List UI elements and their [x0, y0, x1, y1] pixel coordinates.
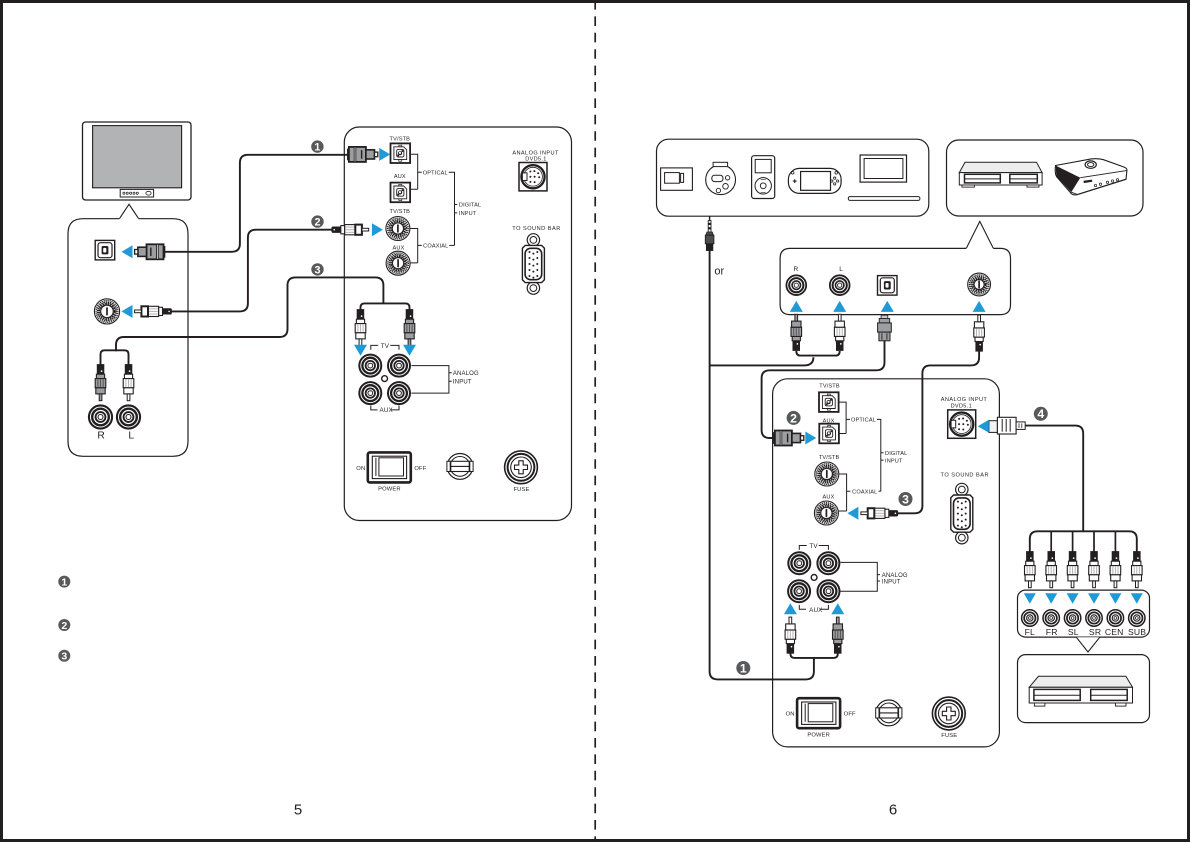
blue arrow into AUX optical p6 [805, 432, 816, 445]
svg-text:FUSE: FUSE [513, 487, 529, 493]
speaker jack SL [1064, 610, 1080, 626]
svg-text:AUX: AUX [379, 407, 393, 414]
jack L on TV panel [117, 405, 140, 428]
svg-text:TV: TV [381, 343, 390, 350]
blue arrow up AUX-L p6 [784, 603, 797, 614]
fuse holder [505, 451, 538, 493]
TV jack panel (page 5) [68, 219, 188, 457]
svg-text:COAXIAL: COAXIAL [423, 244, 448, 250]
wire split bar at TV panel R/L [101, 350, 129, 365]
svg-text:OFF: OFF [844, 712, 856, 718]
device: game console [1055, 159, 1127, 195]
optical plug under panel (gray, up) [879, 319, 890, 323]
aux input panel (page 6) [780, 248, 1010, 314]
optical jack TV/STB p6 [819, 392, 839, 412]
VGA connector p6 [951, 483, 973, 544]
voltage selector p6 [876, 700, 902, 726]
RCA plug over L (white) [123, 365, 134, 401]
sound bar rear panel (page 6) [773, 379, 1000, 747]
optical jack on panel [878, 276, 898, 296]
svg-text:L: L [128, 431, 134, 442]
svg-text:2: 2 [314, 217, 320, 229]
sound bar rear panel (page 5) [344, 127, 571, 521]
coax plug into TV/STB coax (points right) [332, 225, 369, 235]
numbered circle 3 (page5) [311, 263, 323, 276]
RCA plug speaker 6 [1132, 552, 1143, 588]
speaker input panel [1018, 590, 1150, 637]
wire cable1 optical (page5) [165, 155, 348, 252]
blue arrow down speaker 1029.8 [1024, 593, 1036, 604]
RCA plug up R (gray) [791, 314, 802, 350]
callout pointer speaker panel to dvd [1076, 637, 1100, 652]
coax plug at TV panel (points left) [135, 306, 172, 316]
optical out jack on TV panel [95, 240, 115, 260]
speaker jack SR [1086, 610, 1102, 626]
device: psp [788, 168, 841, 193]
blue arrow into TV/STB coax [372, 223, 383, 236]
TV bracket p6 [799, 546, 828, 550]
svg-text:ANALOG INPUT: ANALOG INPUT [941, 397, 988, 403]
wire R/L pair bar (page6) [796, 351, 839, 356]
svg-text:or: or [714, 265, 724, 277]
center screw p6 [811, 575, 817, 581]
jack AUX L p6 [788, 580, 810, 602]
POWER switch [356, 452, 426, 492]
svg-text:TO SOUND BAR: TO SOUND BAR [941, 473, 989, 479]
numbered circle 3 (page6) [899, 492, 913, 506]
wire cable3 analog pair (page5) [116, 277, 383, 351]
VGA connector TO SOUND BAR [522, 234, 544, 295]
DIN connector p6 [948, 410, 976, 438]
wire speaker stub at 1051.2 [1050, 531, 1052, 551]
wire cable1: 3.5mm stem + branch to R/L bar [710, 251, 814, 680]
dvd player box (bottom right) [1018, 655, 1150, 723]
RCA plug up L (white) [834, 314, 845, 350]
svg-text:1: 1 [740, 661, 747, 675]
center fold dashed line [594, 0, 596, 842]
dvd/game box (page 6) [947, 140, 1144, 216]
callout pointer from dvd box to input panel [966, 221, 993, 248]
svg-text:INPUT: INPUT [453, 379, 472, 385]
voltage selector [447, 454, 473, 480]
blue arrow into TV coaxial [122, 305, 133, 318]
RCA plug up AUX L (white) p6 [785, 617, 796, 653]
svg-text:ANALOG: ANALOG [453, 371, 479, 377]
svg-text:FL: FL [1025, 627, 1035, 637]
optical plug into TV/STB optical (points right) [347, 147, 377, 162]
blue arrow up R [790, 301, 803, 312]
RCA plug into TV R (gray) [404, 310, 415, 346]
svg-text:INPUT: INPUT [459, 211, 477, 217]
blue arrow up coax [973, 301, 986, 312]
coax jack on panel [968, 273, 991, 296]
AUX bracket p6 [799, 605, 828, 609]
coax jack AUX p6 [814, 501, 838, 525]
svg-text:SUB: SUB [1128, 627, 1146, 637]
legend circle 2 [58, 619, 70, 632]
speaker jack FR [1043, 610, 1059, 626]
svg-text:TV/STB: TV/STB [819, 455, 840, 461]
svg-text:3: 3 [902, 492, 909, 506]
blue arrow into AUX coax p6 [847, 507, 858, 520]
blue arrow down speaker 1051.2 [1045, 593, 1057, 604]
blue arrow down speaker 1115.4 [1109, 593, 1121, 604]
svg-text:OPTICAL: OPTICAL [851, 418, 876, 424]
numbered circle 1 (page5) [311, 140, 323, 153]
svg-text:DIGITAL: DIGITAL [459, 203, 481, 209]
AUX bracket label [371, 406, 399, 410]
COAXIAL bracket p6 [839, 474, 851, 511]
device: laptop [860, 155, 906, 182]
blue arrow into TV optical [122, 245, 133, 258]
blue arrow up AUX-R p6 [831, 603, 844, 614]
jack TV L [359, 355, 381, 377]
blue arrow down speaker 1094.0 [1088, 593, 1100, 604]
svg-text:4: 4 [1037, 407, 1044, 421]
wire speaker stub at 1072.6 [1072, 531, 1074, 551]
RCA plug speaker 2 [1046, 552, 1057, 588]
DIN plug 4 (points left) [989, 421, 998, 433]
RCA plug into TV L (white) [355, 310, 366, 346]
optical plug 2 into AUX optical (points right) [773, 431, 803, 446]
svg-text:R: R [793, 266, 798, 273]
svg-text:INPUT: INPUT [885, 458, 903, 464]
svg-text:R: R [97, 431, 104, 442]
optical jack AUX [391, 183, 411, 203]
numbered circle 4 (page6) [1034, 407, 1048, 421]
RCA plug speaker 3 [1067, 552, 1078, 588]
wire AUX pair bar p6 [790, 654, 837, 661]
OPTICAL bracket [411, 154, 422, 189]
svg-text:AUX: AUX [823, 494, 835, 500]
optical plug at TV panel (points left) [135, 244, 165, 259]
jack AUX R [388, 382, 410, 404]
blue arrow down speaker 1072.6 [1067, 593, 1079, 604]
TV bracket label [371, 345, 399, 349]
svg-text:L: L [839, 266, 843, 273]
blue arrow up L [833, 301, 846, 312]
jack AUX L [359, 382, 381, 404]
svg-text:1: 1 [314, 142, 320, 154]
RCA plug speaker 1 [1025, 552, 1036, 588]
coax plug under panel (white, up) [974, 315, 985, 351]
OPTICAL bracket p6 [839, 402, 850, 433]
coax jack TV/STB p6 [815, 462, 839, 486]
blue arrow down into TV L [354, 345, 367, 356]
wire optical cable to plug2 [762, 341, 885, 438]
svg-text:OFF: OFF [414, 466, 426, 472]
TV (page 5) [83, 122, 192, 200]
svg-text:DIGITAL: DIGITAL [885, 451, 907, 457]
svg-text:DVD5.1: DVD5.1 [525, 156, 546, 162]
legend circle 1 [58, 576, 70, 589]
numbered circle 2 (page6) [787, 411, 801, 425]
svg-text:OPTICAL: OPTICAL [423, 170, 448, 176]
svg-text:6: 6 [889, 802, 897, 819]
svg-text:SL: SL [1068, 627, 1079, 637]
svg-text:5: 5 [294, 802, 302, 819]
numbered circle 1 (page6) [736, 661, 750, 675]
svg-text:AUX: AUX [809, 607, 823, 614]
jack TV R p6 [817, 552, 839, 574]
svg-text:TV/STB: TV/STB [390, 209, 411, 215]
speaker jack FL [1022, 610, 1038, 626]
jack AUX R p6 [818, 580, 840, 602]
coax jack AUX [386, 251, 410, 275]
optical jack TV/STB [391, 143, 411, 163]
wire coax cable to plug3 [897, 351, 979, 513]
coaxial out jack on TV panel [94, 299, 119, 324]
speaker jack SUB [1129, 610, 1145, 626]
POWER switch p6 [786, 698, 856, 738]
RCA plug speaker 4 [1089, 552, 1100, 588]
wire cable2 coaxial (page5) [171, 230, 334, 312]
svg-text:TO SOUND BAR: TO SOUND BAR [512, 226, 560, 232]
blue arrow down speaker 1136.8 [1131, 593, 1143, 604]
wire cable 4 [1025, 426, 1083, 532]
svg-text:INPUT: INPUT [882, 580, 901, 586]
jack R [786, 275, 806, 295]
legend circle 3 [58, 650, 70, 663]
COAXIAL bracket [410, 229, 422, 263]
dvd player illustration [1029, 676, 1132, 687]
coax plug 3 into AUX coax (points left) [861, 508, 898, 518]
svg-text:COAXIAL: COAXIAL [852, 489, 877, 495]
svg-text:SR: SR [1089, 627, 1101, 637]
wire speaker bus bar [1030, 531, 1137, 551]
svg-text:POWER: POWER [378, 487, 401, 493]
ANALOG INPUT bracket [411, 366, 451, 394]
svg-text:DVD5.1: DVD5.1 [951, 403, 972, 409]
blue arrow into TV/STB optical [379, 148, 390, 161]
coax jack TV/STB [386, 217, 410, 241]
optical jack AUX p6 [819, 424, 839, 444]
blue arrow into DVD5.1 [978, 420, 989, 433]
svg-text:3: 3 [61, 651, 67, 663]
blue arrow up optical [881, 301, 894, 312]
svg-text:2: 2 [790, 411, 797, 425]
DIN connector DVD5.1 [519, 163, 547, 191]
svg-text:AUX: AUX [393, 245, 405, 251]
3.5mm plug under device box [709, 216, 711, 220]
svg-text:CEN: CEN [1105, 627, 1124, 637]
svg-text:TV: TV [809, 543, 818, 550]
wire speaker stub at 1115.4 [1114, 531, 1116, 551]
svg-text:3: 3 [314, 264, 320, 276]
callout pointer from TV to TV jack panel [120, 204, 139, 218]
svg-text:TV/STB: TV/STB [390, 137, 411, 143]
svg-text:FUSE: FUSE [941, 733, 957, 739]
device: round cd player [706, 165, 736, 195]
svg-text:POWER: POWER [807, 733, 830, 739]
device: dvd player [959, 162, 1042, 172]
device: ipod [752, 156, 775, 199]
svg-text:TV/STB: TV/STB [819, 384, 840, 390]
svg-text:1: 1 [61, 576, 67, 588]
RCA plug over R (gray) [95, 365, 106, 401]
RCA plug up AUX R (gray) p6 [833, 617, 844, 653]
wire speaker stub at 1094.0 [1093, 531, 1095, 551]
svg-text:ON: ON [786, 712, 795, 718]
jack TV L p6 [788, 552, 810, 574]
jack TV R [388, 355, 410, 377]
svg-text:2: 2 [61, 620, 67, 632]
ANALOG INPUT bracket p6 [841, 562, 881, 591]
svg-text:AUX: AUX [394, 174, 406, 180]
wire riser + bar at sound bar TV jacks [361, 303, 410, 310]
device: mp3 stick [661, 168, 693, 190]
svg-text:FR: FR [1046, 627, 1058, 637]
svg-text:ON: ON [356, 466, 365, 472]
jack L [830, 275, 850, 295]
portable devices box (page 6) [657, 139, 929, 216]
fuse holder p6 [932, 697, 965, 739]
blue arrow down into TV R [403, 345, 416, 356]
center screw [382, 376, 388, 382]
svg-text:ANALOG: ANALOG [882, 573, 908, 579]
numbered circle 2 (page5) [311, 215, 323, 228]
jack R on TV panel [89, 405, 112, 428]
RCA plug speaker 5 [1110, 552, 1121, 588]
speaker jack CEN [1107, 610, 1123, 626]
